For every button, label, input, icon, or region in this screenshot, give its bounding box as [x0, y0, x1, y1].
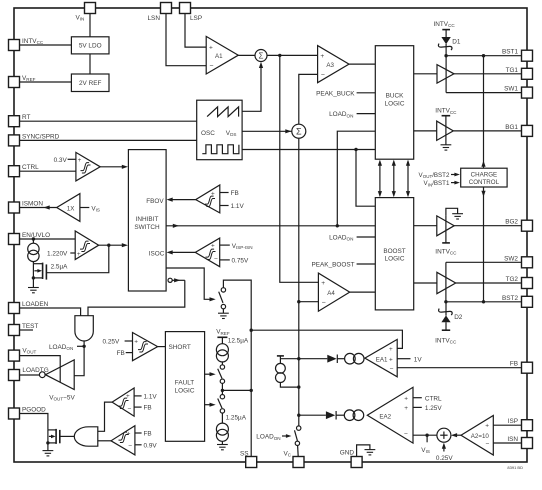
summer S2	[292, 124, 306, 138]
wire bubble output down and left to AND gate input	[88, 280, 185, 315]
gate driver TG2	[437, 272, 456, 293]
wire LOADON label dash	[77, 345, 84, 347]
svg-text:VIS: VIS	[91, 205, 100, 212]
wire summer S2 output up to A3 - input	[299, 74, 318, 124]
svg-text:VISP-ISN: VISP-ISN	[232, 243, 253, 250]
svg-text:SHORT: SHORT	[169, 344, 191, 351]
summer S3 circled plus	[437, 428, 451, 442]
svg-text:+: +	[389, 346, 393, 353]
svg-text:BG1: BG1	[505, 124, 518, 131]
arrow VOUT/BST2 into charge control	[451, 174, 457, 176]
buffer LOADTG with bubble	[39, 360, 74, 390]
node junction on EN/UVLO wire	[32, 237, 35, 240]
svg-text:VOUT: VOUT	[22, 347, 36, 354]
svg-text:A3: A3	[326, 62, 334, 69]
comparator FBOV FB/1.1V	[196, 185, 220, 213]
wire INHIBIT SWITCH output to ISOC discharge switch	[166, 268, 212, 299]
svg-text:LOGIC: LOGIC	[385, 256, 405, 263]
current mirror EA2 gm	[344, 410, 363, 421]
comparator CTRL 0.3V	[76, 152, 100, 181]
diode EA1 output	[327, 355, 344, 364]
arrowhead into INHIBIT SWITCH	[122, 243, 128, 247]
comparator ISOC VISP-ISN/0.75V	[195, 238, 219, 267]
arrowhead at ISOC discharge switch	[210, 297, 216, 301]
arrowhead right into summer S2	[285, 129, 291, 133]
pin ISP	[522, 420, 533, 431]
svg-text:+: +	[320, 53, 324, 60]
svg-text:VREF: VREF	[216, 329, 230, 336]
svg-text:A4: A4	[327, 290, 335, 297]
wire inhibit branch up into BUCK LOGIC	[337, 131, 375, 226]
wire VISP-ISN to comparator + input	[220, 244, 230, 246]
node junction BST1 to charge control	[482, 54, 485, 57]
wire A1 output to summer S1	[238, 54, 255, 56]
wire ISP pin to A2 +	[493, 424, 521, 426]
svg-text:TEST: TEST	[22, 323, 38, 330]
node junction A4 - input on compensation net	[297, 300, 300, 303]
wire SS chain to SS net	[222, 389, 251, 391]
arrowhead at SS charge switch	[210, 372, 216, 376]
svg-text:1.25V: 1.25V	[425, 405, 442, 412]
wire 1.1V comparator output to AND gate input	[98, 402, 112, 431]
node junction EA2 output net	[297, 414, 300, 417]
svg-text:+: +	[485, 423, 489, 430]
wire 1.1V to FBOV - input	[220, 205, 229, 207]
svg-text:−: −	[390, 366, 394, 373]
supply bar INTVCC for BG2 driver	[442, 242, 450, 244]
svg-text:EA2: EA2	[379, 413, 391, 420]
svg-text:A1: A1	[215, 53, 223, 60]
svg-text:VC: VC	[284, 450, 292, 457]
svg-text:BOOST: BOOST	[383, 248, 405, 255]
switch ISOC discharge to ground	[219, 288, 226, 309]
arrowhead into ISOC	[167, 250, 173, 254]
node junction BST2 at TG2 rail	[444, 300, 447, 303]
svg-text:−: −	[214, 256, 218, 263]
wire 1.1V to comparator +	[134, 395, 142, 397]
AND gate loaden (pointing down)	[75, 316, 93, 341]
ground below ISOC switch	[222, 309, 224, 313]
amplifier A2=10	[461, 416, 493, 456]
wire BOOST LOGIC to BG2 driver	[414, 225, 437, 227]
svg-text:OSC: OSC	[201, 130, 215, 137]
current source 12.5uA	[216, 337, 228, 365]
svg-text:LOADON: LOADON	[329, 111, 353, 118]
svg-text:1.220V: 1.220V	[47, 250, 68, 257]
pin ISMON	[9, 202, 20, 213]
node junction SS net to EA1	[250, 329, 253, 332]
node junction D1 to BST1	[444, 54, 447, 57]
pin SW2	[522, 257, 533, 268]
svg-text:CTRL: CTRL	[425, 395, 442, 402]
arrowhead into summer S3	[451, 433, 457, 437]
wire LSN pin to A1 - input	[166, 14, 206, 66]
svg-text:ISN: ISN	[507, 436, 518, 443]
wire A2 output into summer S3	[453, 434, 462, 436]
wire SW2 down to TG2 driver rail	[445, 262, 447, 302]
wire EA1 output to diode	[299, 358, 328, 360]
svg-text:−: −	[486, 441, 490, 448]
node junction SS net to charge chain	[250, 389, 253, 392]
svg-text:0.3V: 0.3V	[54, 157, 68, 164]
svg-text:VIN/BST1: VIN/BST1	[424, 180, 450, 187]
svg-text:FB: FB	[144, 431, 152, 438]
svg-text:−: −	[321, 72, 325, 79]
svg-text:LOADON: LOADON	[256, 434, 280, 441]
svg-text:PEAK_BOOST: PEAK_BOOST	[312, 262, 355, 269]
node junction EA1 output net	[297, 357, 300, 360]
gate driver BG1	[437, 121, 454, 140]
reference block 2V REF	[71, 74, 109, 92]
pin VREF	[9, 77, 20, 88]
svg-text:SWITCH: SWITCH	[134, 224, 160, 231]
node junction M2 source	[46, 441, 49, 444]
wire BST2 net	[446, 301, 522, 303]
wire BG2 driver to BG2 pin	[454, 225, 521, 227]
pin ISN	[522, 438, 533, 449]
buffer 1X	[57, 194, 80, 222]
pin LOADTG	[9, 370, 20, 381]
svg-text:12.5µA: 12.5µA	[228, 337, 249, 344]
pin EN/UVLO	[9, 234, 20, 245]
svg-text:PEAK_BUCK: PEAK_BUCK	[316, 90, 355, 97]
node junction BST2 at charge control	[482, 300, 485, 303]
wire BG1 driver rail	[445, 116, 447, 145]
svg-text:LSP: LSP	[190, 15, 202, 22]
pin BST2	[522, 296, 533, 307]
pin GND	[351, 457, 362, 468]
wire PEAK_BOOST to BOOST LOGIC	[357, 263, 376, 265]
wire FB net from EA1 - to FB pin	[397, 367, 521, 369]
svg-text:LOGIC: LOGIC	[175, 387, 195, 394]
inhibit switch block INHIBIT SWITCH	[128, 150, 166, 291]
diode D1	[438, 30, 452, 56]
op-amp A4	[318, 273, 349, 311]
svg-text:ISP: ISP	[508, 418, 518, 425]
op-amp A3	[318, 46, 349, 83]
wire 0.9V to comparator -	[135, 444, 142, 446]
wire ISOC comparator output to INHIBIT SWITCH	[171, 251, 196, 253]
svg-text:D2: D2	[454, 314, 463, 321]
svg-text:INTVCC: INTVCC	[435, 248, 457, 255]
svg-text:−: −	[128, 443, 132, 450]
svg-text:+: +	[404, 405, 408, 412]
wire VOUT pin to LOADTG buffer rail	[20, 356, 61, 383]
svg-text:BUCK: BUCK	[386, 93, 404, 100]
node junction clamp to compensation net	[297, 385, 300, 388]
svg-text:EN/UVLO: EN/UVLO	[22, 232, 50, 239]
arrowhead down toward BST2	[481, 191, 485, 197]
comparator EN/UVLO 1.220V	[75, 231, 99, 260]
wire 0.3V to CTRL comparator +	[68, 158, 76, 160]
wire OSC sawtooth output to summer S1	[242, 65, 261, 112]
wire RT pin to OSC	[20, 120, 197, 122]
comparator PGOOD FB/0.9V	[111, 426, 135, 455]
wire EA2 CTRL input	[413, 397, 422, 399]
arrowhead on bubble output	[174, 278, 180, 282]
regulator block 5V LDO	[71, 37, 109, 54]
svg-text:SS: SS	[240, 451, 249, 458]
node junction LOADON net	[82, 345, 85, 348]
wire TG1 driver to TG1 pin	[454, 73, 522, 75]
comparator PGOOD 1.1V/FB	[112, 388, 134, 416]
wire PEAK_BUCK to BUCK LOGIC	[357, 92, 376, 94]
wire A3 output to BUCK LOGIC	[349, 63, 375, 65]
pin FB	[522, 362, 533, 373]
error amp EA2	[367, 387, 413, 443]
wire BUCK LOGIC to TG1 driver	[414, 73, 437, 75]
AND gate pgood (pointing left)	[74, 427, 98, 446]
bus arrows between BUCK and BOOST LOGIC	[378, 160, 410, 198]
arrowhead up toward BST1	[481, 161, 485, 167]
svg-text:2.5µA: 2.5µA	[51, 264, 69, 271]
pin VIN	[85, 3, 96, 14]
svg-text:1.25µA: 1.25µA	[226, 415, 247, 422]
wire AND output down to LOADTG buffer	[74, 341, 84, 376]
wire LOADON to BOOST LOGIC	[357, 236, 376, 238]
svg-text:BST2: BST2	[502, 295, 518, 302]
node junction VIS sense	[425, 434, 428, 437]
wire SS net to EA1 + input	[251, 330, 402, 348]
wire ISN pin to A2 -	[493, 442, 521, 444]
pin BG2	[522, 220, 533, 231]
wire SW2 net	[446, 261, 522, 263]
svg-text:A2=10: A2=10	[471, 433, 490, 440]
wire compensation net down to EA outputs and VC switch	[298, 302, 300, 426]
wire SYNC/SPRD pin to OSC	[20, 139, 197, 141]
wire FAULT LOGIC to SS charge switch	[205, 373, 212, 375]
svg-text:SW1: SW1	[504, 86, 518, 93]
wire square wave branch to BOOST LOGIC	[356, 150, 375, 207]
wire summer S2 bottom to compensation net	[298, 138, 300, 302]
diode D2	[439, 302, 453, 330]
arrow LOADON at switch	[282, 435, 288, 437]
wire CTRL pin to comparator	[20, 170, 76, 172]
wire bubble output toward AND gate	[172, 279, 185, 281]
svg-text:LOADTG: LOADTG	[22, 367, 48, 374]
pin LSP	[180, 3, 191, 14]
wire 1X output to ISMON pin	[20, 207, 57, 209]
wire 1.220V to comparator +	[70, 252, 75, 254]
node junction on EN comparator output	[107, 244, 110, 247]
svg-text:5V LDO: 5V LDO	[79, 43, 102, 50]
wire S1 output branch down to A4 + input	[280, 55, 319, 282]
arrowhead at SS discharge switch	[210, 403, 216, 407]
wire BST1 branch down to CHARGE CONTROL	[483, 56, 485, 169]
pin TEST	[9, 325, 20, 336]
svg-text:0.25V: 0.25V	[103, 339, 120, 346]
pin RT	[9, 116, 20, 127]
pin LOADEN	[9, 303, 20, 314]
svg-text:−: −	[209, 63, 213, 70]
svg-text:SW2: SW2	[504, 255, 518, 262]
wire TG2 driver to TG2 pin	[456, 282, 522, 284]
svg-text:ISOC: ISOC	[149, 250, 165, 257]
current source VC clamp	[276, 356, 299, 387]
svg-text:ISMON: ISMON	[22, 201, 43, 208]
pin VOUT	[9, 350, 20, 361]
arrowhead into FBOV	[167, 198, 173, 202]
wire EN comparator output to INHIBIT SWITCH	[99, 244, 124, 246]
inverter bubble on INHIBIT SWITCH lower output	[168, 278, 172, 282]
ground below M2	[47, 443, 49, 451]
switch SS discharge	[218, 390, 225, 423]
svg-text:FAULT: FAULT	[175, 380, 195, 387]
gate driver TG1	[437, 65, 454, 84]
arrowhead up into summer S1	[259, 62, 263, 68]
svg-text:INTVCC: INTVCC	[435, 108, 457, 115]
wire LSP pin to A1 + input	[185, 14, 206, 48]
wire BOOST LOGIC to TG2 driver	[414, 282, 437, 284]
node junction SS chain	[221, 389, 224, 392]
wire 5V LDO to 2V REF	[89, 54, 91, 74]
wire BG1 driver to BG1 pin	[453, 130, 521, 132]
wire BUCK LOGIC to BG1 driver	[414, 130, 437, 132]
wire INTVCC pin to 5V LDO	[20, 44, 72, 46]
node junction MOSFET source	[32, 276, 35, 279]
svg-text:+: +	[209, 45, 213, 52]
svg-text:INHIBIT: INHIBIT	[136, 216, 159, 223]
wire 0.9V comparator output to AND gate input	[98, 440, 111, 442]
svg-text:8391 BD: 8391 BD	[507, 465, 523, 470]
node junction inhibit wire branch	[336, 224, 339, 227]
svg-text:LOGIC: LOGIC	[385, 100, 405, 107]
svg-text:CONTROL: CONTROL	[469, 179, 500, 186]
wire summer S1 output to A3 + input	[267, 54, 318, 56]
oscillator block OSC	[197, 100, 242, 160]
svg-text:0.9V: 0.9V	[144, 442, 158, 449]
svg-text:TG2: TG2	[506, 276, 519, 283]
svg-text:+: +	[211, 242, 215, 249]
supply bar INTVCC for D2	[442, 329, 450, 331]
switch SS charge	[218, 365, 225, 391]
wire SW1 net	[446, 92, 521, 94]
svg-text:VDS: VDS	[226, 130, 237, 137]
pin TG1	[522, 68, 533, 79]
wire EA2 output to diode	[299, 414, 326, 416]
wire FB to comparator +	[135, 432, 142, 434]
pin SYNC/SPRD	[9, 135, 20, 146]
wire SHORT comparator to FAULT LOGIC	[158, 346, 166, 348]
wire VIN pin to 5V LDO	[89, 14, 91, 37]
pin INTVCC	[9, 40, 20, 51]
summer S1	[255, 50, 267, 62]
pin SW1	[522, 87, 533, 98]
svg-text:INTVCC: INTVCC	[434, 21, 456, 28]
error amp EA1	[365, 339, 397, 376]
ground above BG2 driver	[446, 208, 458, 216]
supply bar INTVCC for BG1 driver	[442, 115, 451, 117]
svg-text:GND: GND	[340, 450, 355, 457]
svg-text:RT: RT	[22, 114, 30, 121]
svg-text:CHARGE: CHARGE	[471, 172, 497, 179]
svg-text:+: +	[78, 157, 82, 164]
wire INHIBIT SWITCH output to BUCK and BOOST LOGIC	[166, 225, 375, 227]
supply bar INTVCC for D1	[442, 29, 450, 31]
diode EA2 output	[326, 411, 344, 420]
svg-text:0.75V: 0.75V	[232, 258, 249, 265]
svg-text:1.1V: 1.1V	[231, 203, 245, 210]
wire VIS to 1X input	[80, 207, 89, 209]
arrow VIN/BST1 into charge control	[451, 182, 457, 184]
wire 0.75V to comparator - input	[220, 259, 230, 261]
svg-text:BST1: BST1	[502, 49, 518, 56]
svg-text:+: +	[77, 251, 81, 258]
stub VIS below junction	[426, 435, 428, 442]
svg-text:LOADON: LOADON	[329, 235, 353, 242]
svg-text:+: +	[389, 356, 393, 363]
svg-text:BG2: BG2	[505, 219, 518, 226]
arrow 0.25V into summer S3	[443, 445, 445, 452]
current mirror EA1 gm	[345, 353, 364, 364]
supply bar clamp current source	[277, 355, 284, 357]
wire FBOV comparator output to INHIBIT SWITCH	[171, 199, 196, 201]
wire VREF pin to 2V REF	[20, 81, 72, 83]
op-amp A1	[206, 36, 238, 74]
pin CTRL	[9, 166, 20, 177]
svg-text:−: −	[128, 406, 132, 413]
svg-text:SYNC/SPRD: SYNC/SPRD	[22, 133, 60, 140]
comparator SHORT 0.25V/FB	[133, 333, 158, 361]
svg-text:2V REF: 2V REF	[79, 80, 101, 87]
wire compensation net to A4 - input	[299, 301, 319, 303]
wire PGOOD pin to MOSFET drain	[20, 414, 48, 430]
pin VC	[293, 457, 304, 468]
gate driver BG2	[437, 216, 454, 236]
current source 2.5uA hysteresis	[28, 239, 39, 264]
svg-text:−: −	[404, 431, 408, 438]
wire FAULT LOGIC to SS discharge switch	[205, 404, 212, 406]
pin LSN	[161, 3, 172, 14]
svg-text:INTVCC: INTVCC	[22, 38, 44, 45]
wire LOADON to BUCK LOGIC	[357, 113, 376, 115]
supply bar VREF	[217, 336, 227, 338]
wire EA2 1.25V input	[413, 406, 422, 408]
svg-text:+: +	[134, 339, 138, 346]
svg-text:VREF: VREF	[22, 75, 36, 82]
ground symbol at GND pin	[357, 445, 370, 457]
current source 1.25uA	[216, 423, 228, 444]
arrowhead toward ISMON pin	[44, 205, 50, 209]
svg-text:1.1V: 1.1V	[144, 394, 158, 401]
svg-text:FB: FB	[144, 405, 152, 412]
ground below 1.25uA source	[217, 445, 228, 450]
wire OSC square wave output to BUCK LOGIC	[242, 149, 375, 151]
wire FB to comparator -	[134, 406, 142, 408]
svg-text:LOADON: LOADON	[49, 344, 73, 351]
node junction S1 output branch	[278, 54, 281, 57]
svg-text:FB: FB	[510, 361, 518, 368]
charge control block CHARGE CONTROL	[461, 168, 507, 187]
svg-text:TG1: TG1	[506, 67, 519, 74]
wire EA1 net to clamp current source	[280, 358, 298, 360]
wire FB to FBOV + input	[220, 192, 229, 194]
svg-text:CTRL: CTRL	[22, 164, 39, 171]
wire CHARGE CONTROL down to BST2 net	[483, 187, 485, 302]
fault logic block FAULT LOGIC	[165, 332, 204, 442]
wire EA1 1V reference input	[397, 358, 410, 360]
svg-text:1V: 1V	[414, 356, 423, 363]
transistor M2 PGOOD pulldown	[48, 429, 60, 444]
wire BG2 driver rail	[445, 216, 447, 243]
pin TG2	[522, 278, 533, 289]
wire A4 output to BOOST LOGIC	[350, 291, 376, 293]
svg-text:FB: FB	[231, 190, 239, 197]
svg-text:VIS: VIS	[421, 447, 430, 454]
svg-text:VIN: VIN	[76, 14, 85, 21]
transistor M1 hysteresis switch	[33, 263, 46, 280]
svg-text:Σ: Σ	[259, 51, 264, 60]
